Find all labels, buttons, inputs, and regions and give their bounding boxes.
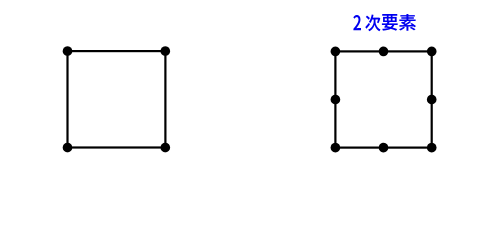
node dot left-sq top-right bbox=[160, 46, 170, 56]
linear element square (left) bbox=[68, 51, 166, 147]
node dot right-sq right-mid bbox=[427, 95, 437, 105]
label glyph 素 bbox=[399, 14, 416, 31]
node dot left-sq bottom-left bbox=[63, 143, 73, 153]
quadratic element square (right) bbox=[335, 51, 431, 147]
node dot right-sq top-mid bbox=[379, 47, 389, 57]
label 2次要素 (blue) bbox=[353, 14, 416, 31]
node dot left-sq top-left bbox=[63, 46, 73, 56]
node dot right-sq bottom-right bbox=[427, 143, 437, 153]
node dot right-sq left-mid bbox=[331, 95, 341, 105]
node dot right-sq top-left bbox=[331, 47, 341, 57]
node dot right-sq bottom-mid bbox=[379, 143, 389, 153]
node dot left-sq bottom-right bbox=[160, 143, 170, 153]
label glyph 要 bbox=[382, 14, 398, 31]
label glyph 2 bbox=[353, 15, 361, 30]
node dot right-sq top-right bbox=[427, 47, 437, 57]
label glyph 次 bbox=[365, 14, 380, 31]
node dot right-sq bottom-left bbox=[331, 143, 341, 153]
